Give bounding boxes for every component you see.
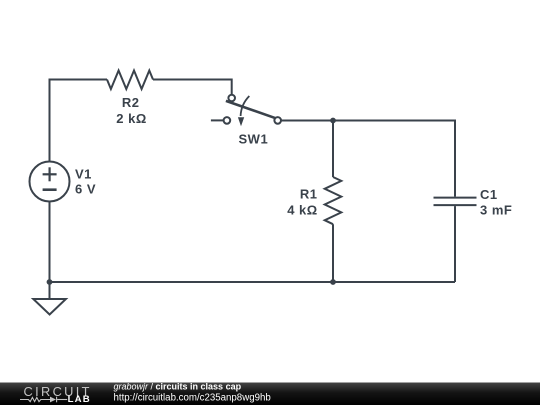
svg-text:3 mF: 3 mF xyxy=(480,202,512,217)
wire R2 to SW1 xyxy=(153,80,232,95)
capacitor C1 plates xyxy=(434,198,477,206)
svg-text:6 V: 6 V xyxy=(75,181,96,196)
node dot at ground xyxy=(47,279,53,285)
footer bar xyxy=(0,383,540,405)
wire R1 top xyxy=(332,121,334,178)
wire V1 bottom xyxy=(49,202,51,300)
wire C1 bottom xyxy=(454,206,456,282)
svg-text:grabowjr / circuits in class c: grabowjr / circuits in class cap xyxy=(114,382,242,392)
voltage source V1 xyxy=(30,162,70,202)
svg-text:R1: R1 xyxy=(300,187,318,202)
wire SW1 to C1 top corner xyxy=(281,121,455,197)
svg-text:R2: R2 xyxy=(122,95,140,110)
svg-text:2 kΩ: 2 kΩ xyxy=(116,111,147,126)
resistor R2 xyxy=(107,71,153,90)
CircuitLab logo xyxy=(20,384,92,405)
bottom wire xyxy=(50,281,456,283)
switch SW1 xyxy=(211,95,281,127)
wire R1 bottom xyxy=(332,224,334,282)
svg-text:C1: C1 xyxy=(480,187,498,202)
ground xyxy=(33,299,66,315)
svg-text:http://circuitlab.com/c235anp8: http://circuitlab.com/c235anp8wg9hb xyxy=(114,392,271,403)
svg-text:V1: V1 xyxy=(75,166,92,181)
svg-text:LAB: LAB xyxy=(68,394,91,405)
node dot at R1 bottom xyxy=(330,279,336,285)
svg-text:4 kΩ: 4 kΩ xyxy=(287,202,318,217)
svg-text:SW1: SW1 xyxy=(239,131,269,146)
resistor R1 xyxy=(325,177,342,224)
node dot at R1 top xyxy=(330,118,336,124)
footer title text xyxy=(114,382,271,404)
wire V1 top to R2 xyxy=(50,80,108,162)
